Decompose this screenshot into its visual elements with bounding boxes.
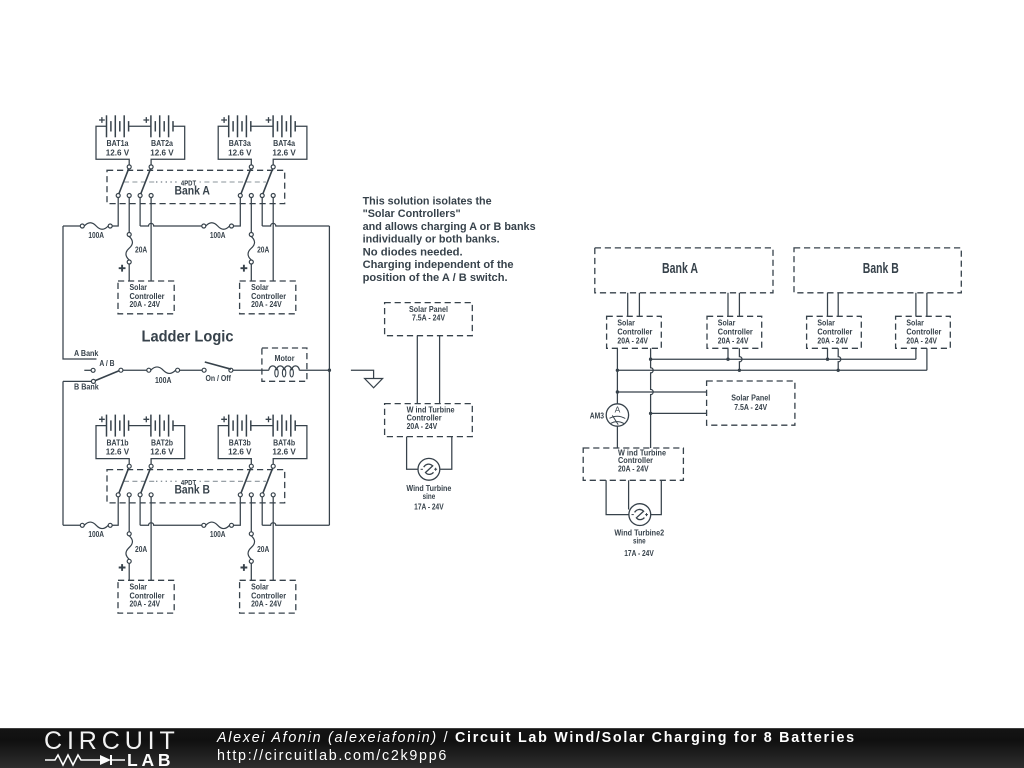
svg-text:100A: 100A	[88, 530, 104, 539]
svg-text:12.6 V: 12.6 V	[272, 148, 296, 157]
svg-text:BAT2a: BAT2a	[151, 139, 173, 148]
svg-text:Solar: Solar	[718, 319, 736, 328]
svg-text:12.6 V: 12.6 V	[106, 148, 130, 157]
svg-text:Controller: Controller	[817, 328, 852, 337]
svg-text:Solar: Solar	[906, 319, 924, 328]
svg-text:sine: sine	[633, 537, 646, 546]
svg-text:12.6 V: 12.6 V	[228, 148, 252, 157]
svg-text:20A - 24V: 20A - 24V	[618, 465, 649, 474]
svg-text:This solution isolates the: This solution isolates the	[363, 195, 492, 207]
svg-text:100A: 100A	[210, 231, 226, 240]
svg-text:Solar: Solar	[130, 582, 148, 591]
svg-text:12.6 V: 12.6 V	[272, 448, 296, 457]
svg-text:7.5A - 24V: 7.5A - 24V	[412, 313, 446, 322]
svg-text:20A: 20A	[135, 246, 147, 255]
svg-text:Bank B: Bank B	[863, 261, 899, 277]
svg-text:100A: 100A	[210, 530, 226, 539]
svg-text:17A - 24V: 17A - 24V	[414, 502, 444, 511]
svg-text:Bank A: Bank A	[662, 261, 698, 277]
svg-text:Solar Panel: Solar Panel	[731, 394, 770, 403]
svg-text:individually or both banks.: individually or both banks.	[363, 234, 500, 246]
svg-text:17A - 24V: 17A - 24V	[624, 549, 654, 558]
svg-text:BAT3b: BAT3b	[229, 438, 251, 447]
svg-text:AM3: AM3	[590, 411, 605, 420]
svg-text:20A - 24V: 20A - 24V	[617, 337, 648, 346]
svg-text:20A: 20A	[257, 545, 269, 554]
svg-text:BAT1b: BAT1b	[107, 438, 129, 447]
svg-text:20A - 24V: 20A - 24V	[130, 300, 161, 309]
svg-text:100A: 100A	[88, 231, 104, 240]
svg-text:On / Off: On / Off	[206, 374, 232, 383]
svg-text:20A - 24V: 20A - 24V	[817, 337, 848, 346]
svg-text:BAT3a: BAT3a	[229, 139, 251, 148]
svg-text:and allows charging A or B ban: and allows charging A or B banks	[363, 221, 536, 233]
svg-text:20A - 24V: 20A - 24V	[130, 599, 161, 608]
svg-text:20A - 24V: 20A - 24V	[718, 337, 749, 346]
svg-text:Solar: Solar	[130, 283, 148, 292]
svg-text:12.6 V: 12.6 V	[150, 448, 174, 457]
svg-text:Ladder Logic: Ladder Logic	[142, 329, 234, 346]
svg-text:BAT2b: BAT2b	[151, 438, 173, 447]
svg-text:Controller: Controller	[617, 328, 652, 337]
svg-text:20A: 20A	[135, 545, 147, 554]
svg-text:BAT1a: BAT1a	[107, 139, 129, 148]
svg-text:Controller: Controller	[718, 328, 753, 337]
svg-text:BAT4a: BAT4a	[273, 139, 295, 148]
svg-text:Motor: Motor	[275, 354, 295, 363]
svg-text:7.5A - 24V: 7.5A - 24V	[734, 403, 768, 412]
svg-text:A: A	[615, 405, 621, 415]
svg-text:12.6 V: 12.6 V	[228, 448, 252, 457]
svg-text:12.6 V: 12.6 V	[106, 448, 130, 457]
svg-text:B Bank: B Bank	[74, 382, 99, 391]
svg-text:position of the A / B switch.: position of the A / B switch.	[363, 272, 508, 284]
svg-text:Controller: Controller	[906, 328, 941, 337]
svg-text:Solar: Solar	[817, 319, 835, 328]
svg-text:Bank A: Bank A	[174, 183, 210, 197]
svg-text:Solar: Solar	[251, 283, 269, 292]
svg-text:12.6 V: 12.6 V	[150, 148, 174, 157]
svg-text:A / B: A / B	[99, 359, 114, 368]
svg-text:No diodes needed.: No diodes needed.	[363, 246, 463, 258]
svg-text:Bank B: Bank B	[174, 483, 210, 497]
svg-text:20A: 20A	[257, 246, 269, 255]
svg-text:Solar: Solar	[251, 582, 269, 591]
svg-text:BAT4b: BAT4b	[273, 438, 295, 447]
svg-text:A Bank: A Bank	[74, 349, 99, 358]
svg-text:100A: 100A	[155, 376, 172, 385]
svg-text:20A - 24V: 20A - 24V	[251, 599, 282, 608]
svg-text:20A - 24V: 20A - 24V	[906, 337, 937, 346]
svg-text:"Solar Controllers": "Solar Controllers"	[363, 208, 461, 220]
svg-text:Charging independent of the: Charging independent of the	[363, 259, 514, 271]
svg-text:20A - 24V: 20A - 24V	[407, 422, 438, 431]
svg-text:sine: sine	[423, 492, 436, 501]
svg-text:20A - 24V: 20A - 24V	[251, 300, 282, 309]
svg-text:Solar: Solar	[617, 319, 635, 328]
